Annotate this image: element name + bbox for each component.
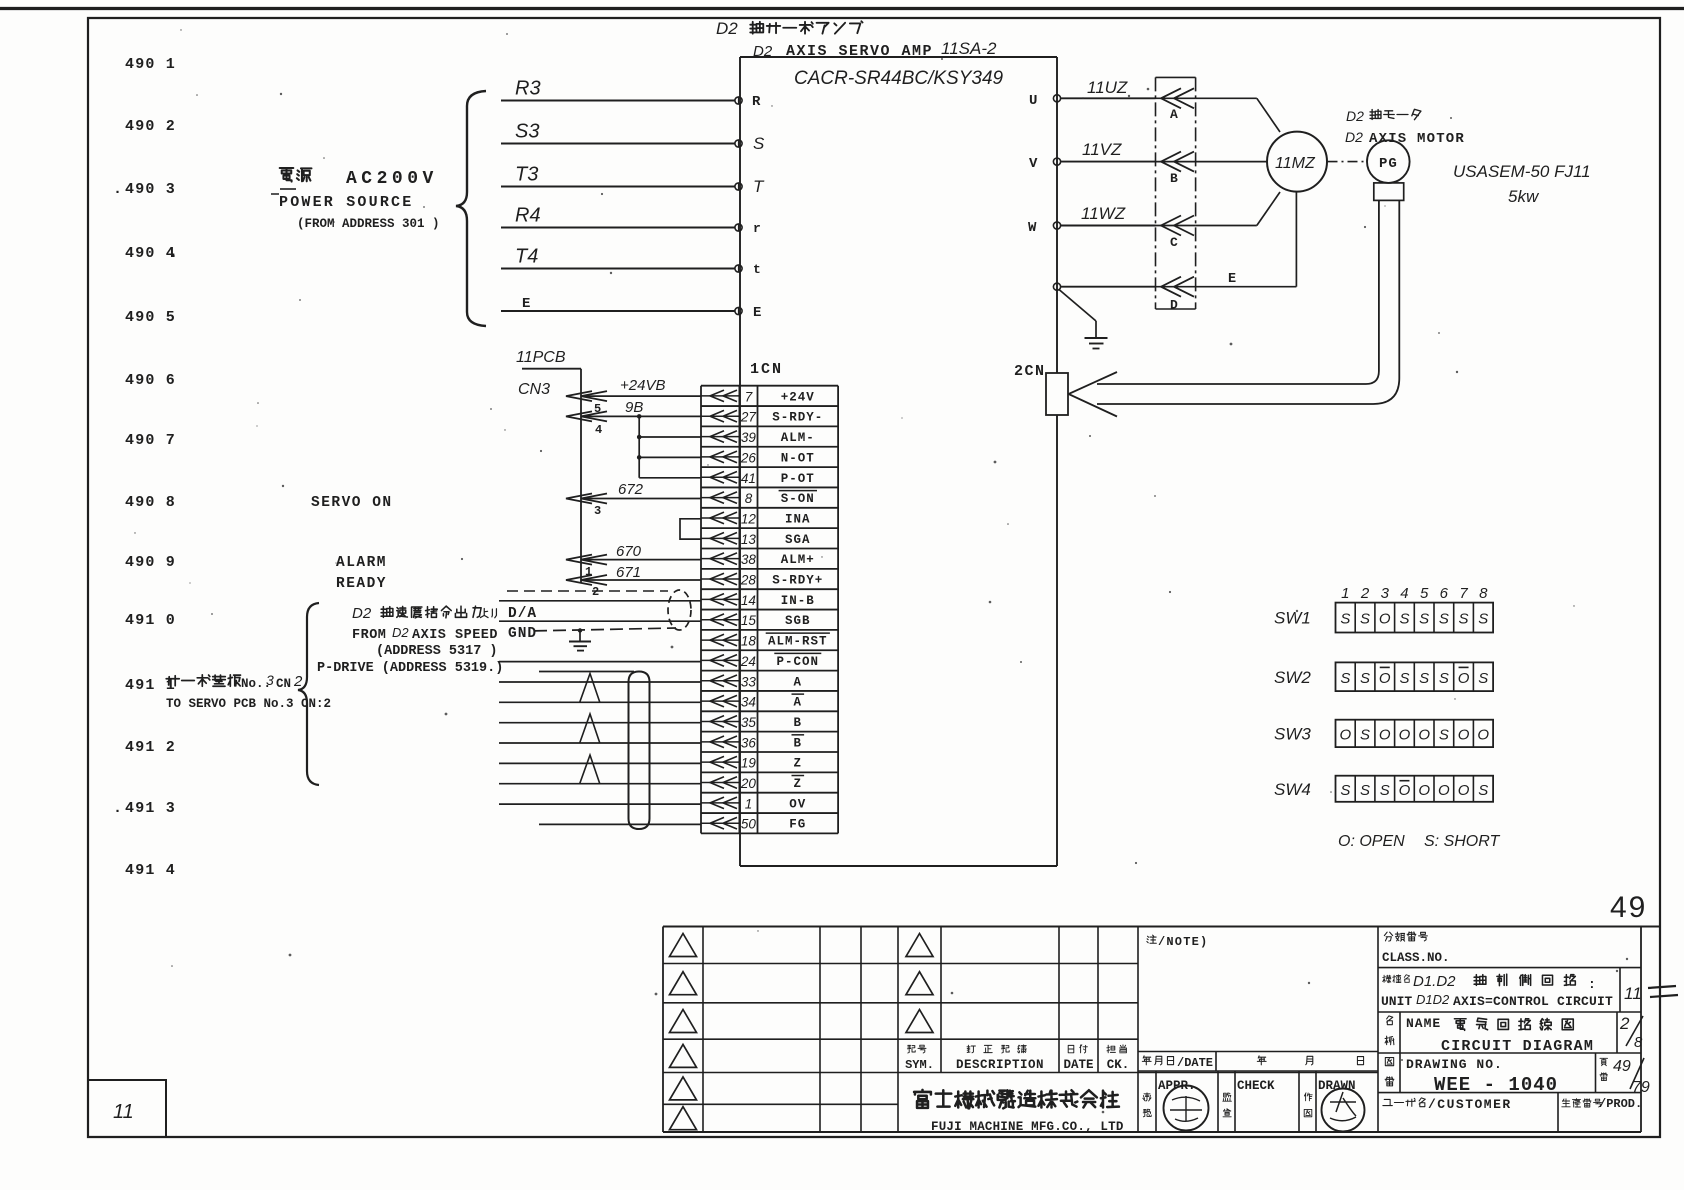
svg-text:/PROD.: /PROD. <box>1599 1097 1642 1111</box>
svg-text:D2: D2 <box>716 19 738 38</box>
wire T4 to servo amp <box>501 268 735 270</box>
svg-text:O: O <box>1438 782 1450 799</box>
1CN pin 7 +24V row <box>701 389 815 404</box>
svg-text:PG: PG <box>1379 156 1398 172</box>
1CN pin 24 P-CON row <box>701 653 821 669</box>
encoder wire y=783.7 <box>499 783 701 785</box>
svg-text:490 5: 490 5 <box>125 309 176 326</box>
motor to PG link <box>1328 161 1367 163</box>
svg-text:11: 11 <box>1624 984 1642 1003</box>
power source label (dengen AC200V) <box>280 168 312 182</box>
brace to servo pcb <box>298 603 319 785</box>
wire block C to motor <box>1196 225 1257 227</box>
wire block D to motor frame E <box>1196 286 1297 288</box>
svg-text:SW1: SW1 <box>1274 609 1311 628</box>
svg-text:11WZ: 11WZ <box>1081 204 1126 223</box>
output terminal W <box>1053 222 1060 229</box>
wire P-CON from P-DRIVE <box>499 661 701 663</box>
svg-text:P-CON: P-CON <box>777 655 820 669</box>
equals marks outside border <box>1648 986 1676 988</box>
page top scan edge line <box>0 7 1684 10</box>
PG cable outer <box>1097 200 1399 404</box>
wire R3 to servo amp <box>501 100 735 102</box>
svg-text:T3: T3 <box>515 164 538 186</box>
svg-text:C: C <box>1170 235 1178 250</box>
svg-text:+24V: +24V <box>781 390 815 404</box>
revision triangle col2 row 1 <box>906 934 933 957</box>
1CN pin 18 ALM-RST row <box>701 633 830 649</box>
encoder wire y=702.3 <box>499 701 701 703</box>
jumper INA-SGA <box>680 519 701 539</box>
svg-text:CK.: CK. <box>1107 1058 1130 1072</box>
title block revision grid <box>663 927 1378 1133</box>
svg-text:T4: T4 <box>515 246 538 268</box>
svg-text:A: A <box>794 696 803 710</box>
svg-text:CACR-SR44BC/KSY349: CACR-SR44BC/KSY349 <box>794 68 1004 89</box>
svg-text:491 2: 491 2 <box>125 739 176 756</box>
svg-text:S: S <box>1380 782 1390 799</box>
wire 670 to 1CN <box>581 559 701 561</box>
svg-text:3: 3 <box>594 504 601 518</box>
svg-text:OV: OV <box>789 797 806 811</box>
revision triangle col2 row 3 <box>906 1010 933 1033</box>
terminal S <box>735 140 742 147</box>
svg-text:11UZ: 11UZ <box>1087 78 1128 97</box>
terminal block row B <box>1156 152 1196 186</box>
SW1 switch table <box>1274 603 1493 633</box>
svg-text:UNIT: UNIT <box>1381 994 1412 1009</box>
wire FG <box>539 823 701 825</box>
svg-text:5: 5 <box>594 402 601 416</box>
svg-text:2: 2 <box>592 585 599 599</box>
svg-text:670: 670 <box>616 543 642 560</box>
1CN pin 14 IN-B row <box>701 593 815 608</box>
drawing no cell WEE-1040 <box>1378 1053 1650 1096</box>
svg-text:D1D2: D1D2 <box>1416 992 1450 1007</box>
svg-text:/DATE: /DATE <box>1177 1056 1213 1070</box>
svg-text:11SA-2: 11SA-2 <box>941 39 997 58</box>
wire S3 to servo amp <box>501 143 735 145</box>
svg-text:490 3: 490 3 <box>125 181 176 198</box>
1CN pin 1 OV row <box>701 796 806 811</box>
terminal E <box>735 307 742 314</box>
svg-text:S3: S3 <box>515 121 539 143</box>
unit name cell <box>1378 968 1642 1012</box>
svg-text:12: 12 <box>741 511 757 526</box>
svg-text:SERVO ON: SERVO ON <box>311 495 393 511</box>
svg-text:R3: R3 <box>515 78 541 100</box>
svg-text:T: T <box>753 177 765 196</box>
svg-text:491 4: 491 4 <box>125 862 176 879</box>
svg-text:B: B <box>1170 171 1178 186</box>
svg-text:24: 24 <box>740 654 756 669</box>
svg-text:AXIS=CONTROL CIRCUIT: AXIS=CONTROL CIRCUIT <box>1453 994 1613 1009</box>
svg-text:E: E <box>753 305 761 321</box>
1CN pin 33 A row <box>701 674 802 689</box>
svg-text:38: 38 <box>741 552 757 567</box>
svg-text:S: S <box>1360 726 1370 743</box>
terminal t <box>735 265 742 272</box>
svg-text:S: S <box>1478 782 1488 799</box>
1CN pin 38 ALM+ row <box>701 552 815 567</box>
svg-text:INA: INA <box>785 512 811 526</box>
signal ground symbol <box>578 628 582 632</box>
svg-text:E: E <box>522 296 530 312</box>
wire 672 to 1CN <box>581 498 701 500</box>
wire T3 to servo amp <box>501 186 735 188</box>
svg-text:35: 35 <box>741 715 757 730</box>
terminal r <box>735 224 742 231</box>
svg-text:SW3: SW3 <box>1274 724 1311 743</box>
output terminal E <box>1053 283 1060 290</box>
revision triangle row 1 <box>670 934 697 957</box>
svg-text:NAME: NAME <box>1406 1016 1441 1031</box>
encoder wire y=743 <box>499 742 701 744</box>
svg-text:E: E <box>1228 272 1236 287</box>
svg-text:S: S <box>1340 670 1350 687</box>
svg-text:491 0: 491 0 <box>125 612 176 629</box>
svg-text:S-RDY-: S-RDY- <box>772 411 823 425</box>
svg-text:2: 2 <box>1360 585 1370 602</box>
1CN pin 34 A row <box>701 694 804 710</box>
svg-text:7: 7 <box>745 389 753 404</box>
svg-text:11MZ: 11MZ <box>1275 155 1316 172</box>
shield oval for D/A pair <box>668 590 691 630</box>
svg-text:7: 7 <box>1459 585 1468 602</box>
svg-text:AXIS SPEED: AXIS SPEED <box>412 628 498 643</box>
revision triangle row 2 <box>670 972 697 995</box>
svg-text:2: 2 <box>1619 1014 1630 1033</box>
svg-text:O: OPEN: O: OPEN <box>1338 833 1405 850</box>
twisted pair symbol A <box>580 674 600 703</box>
1CN pin 19 Z row <box>701 756 802 771</box>
svg-text:5: 5 <box>1420 585 1429 602</box>
1CN pin 27 S-RDY- row <box>701 410 823 425</box>
svg-text:1: 1 <box>1341 585 1349 602</box>
shield drain to encoder shield <box>539 671 634 673</box>
servo pcb text <box>166 675 240 686</box>
terminal block row A <box>1156 88 1196 122</box>
wire +24VB to 1CN <box>581 395 701 397</box>
1CN connector table <box>701 386 838 834</box>
svg-text:DRAWING NO.: DRAWING NO. <box>1406 1057 1503 1072</box>
sheet number box bottom left <box>88 1080 166 1137</box>
svg-text:50: 50 <box>741 817 757 832</box>
terminal T <box>735 183 742 190</box>
cable arrow into 2CN <box>1069 372 1118 417</box>
svg-text:3: 3 <box>266 672 274 688</box>
class no cell <box>1382 932 1450 965</box>
wire R4 to servo amp <box>501 227 735 229</box>
svg-text:S: S <box>1419 611 1429 628</box>
svg-text:DESCRIPTION: DESCRIPTION <box>956 1058 1044 1072</box>
svg-text:FUJI MACHINE MFG.CO., LTD: FUJI MACHINE MFG.CO., LTD <box>931 1120 1124 1134</box>
svg-text:O: O <box>1399 782 1411 799</box>
svg-text:.: . <box>169 245 178 262</box>
svg-text:R4: R4 <box>515 205 541 227</box>
wire E to terminal block <box>1061 286 1156 288</box>
svg-text:15: 15 <box>741 613 757 628</box>
svg-text:O: O <box>1340 726 1352 743</box>
output terminal U <box>1053 95 1060 102</box>
revision triangle col2 row 2 <box>906 972 933 995</box>
svg-text:S-RDY+: S-RDY+ <box>772 574 823 588</box>
svg-text:R: R <box>752 94 761 110</box>
svg-text:O: O <box>1399 726 1411 743</box>
svg-text:/NOTE): /NOTE) <box>1158 935 1208 949</box>
svg-text:S: S <box>1360 670 1370 687</box>
svg-text:A: A <box>1170 107 1178 122</box>
svg-text:3: 3 <box>1381 585 1390 602</box>
svg-text:34: 34 <box>741 695 756 710</box>
svg-text:1: 1 <box>585 565 592 579</box>
PG cable inner <box>1097 200 1379 384</box>
svg-text:READY: READY <box>336 576 387 592</box>
svg-text:U: U <box>1029 93 1037 109</box>
svg-text:CLASS.NO.: CLASS.NO. <box>1382 951 1450 965</box>
svg-text:A: A <box>794 675 803 689</box>
svg-text:D2: D2 <box>753 43 773 60</box>
1CN pin 36 B row <box>701 735 804 751</box>
svg-text:27: 27 <box>740 410 757 425</box>
SW3 switch table <box>1274 720 1493 747</box>
svg-text:B: B <box>794 736 803 750</box>
SW4 switch table <box>1274 776 1493 802</box>
twisted pair symbol Z <box>580 755 600 784</box>
svg-text:ALARM: ALARM <box>336 555 387 571</box>
customer cell <box>1378 1093 1642 1132</box>
svg-text:39: 39 <box>741 430 757 445</box>
svg-text:O: O <box>1418 782 1430 799</box>
GND dashed wire <box>534 628 676 631</box>
wire 11UZ <box>1061 97 1156 99</box>
svg-text:33: 33 <box>741 674 757 689</box>
wire 11WZ <box>1061 225 1156 227</box>
svg-text:SW4: SW4 <box>1274 780 1311 799</box>
svg-text:D: D <box>1170 298 1178 313</box>
svg-text:USASEM-50 FJ11: USASEM-50 FJ11 <box>1453 162 1591 181</box>
svg-text:P-DRIVE (ADDRESS 5319.): P-DRIVE (ADDRESS 5319.) <box>317 661 503 676</box>
1CN pin 26 N-OT row <box>701 450 815 465</box>
svg-text:D/A: D/A <box>508 606 537 622</box>
svg-text:S: S <box>1399 670 1409 687</box>
svg-text:O: O <box>1458 726 1470 743</box>
svg-text:CHECK: CHECK <box>1237 1079 1275 1093</box>
wire IN-B <box>499 600 701 602</box>
svg-text:+24VB: +24VB <box>620 377 665 394</box>
1CN pin 39 ALM- row <box>701 430 815 445</box>
wire from 11PCB CN3 <box>522 368 581 370</box>
shield drain wire dashed to D/A pair <box>507 590 668 592</box>
svg-text:490 9: 490 9 <box>125 554 176 571</box>
1CN pin 50 FG row <box>701 817 806 832</box>
svg-text:S: S <box>1439 670 1449 687</box>
svg-text:AXIS MOTOR: AXIS MOTOR <box>1369 131 1465 147</box>
wire SGB <box>499 620 701 622</box>
wire block B to motor <box>1196 161 1267 163</box>
svg-text:41: 41 <box>741 471 756 486</box>
svg-text:ALM+: ALM+ <box>781 553 815 567</box>
svg-text:.: . <box>113 181 122 198</box>
svg-text:490 6: 490 6 <box>125 372 176 389</box>
brace grouping power wires <box>456 91 486 326</box>
svg-text:20: 20 <box>740 776 757 791</box>
svg-text:S-ON: S-ON <box>781 492 815 506</box>
name cell circuit diagram <box>1378 1012 1643 1055</box>
svg-text:O: O <box>1477 726 1489 743</box>
svg-text:8: 8 <box>1479 585 1488 602</box>
svg-text::: : <box>1588 977 1596 992</box>
svg-text:Z: Z <box>794 777 803 791</box>
1CN pin 41 P-OT row <box>701 471 815 486</box>
approval stamp <box>1164 1086 1209 1131</box>
terminal block row C <box>1156 216 1196 251</box>
svg-text:/CUSTOMER: /CUSTOMER <box>1428 1097 1512 1112</box>
svg-text:(ADDRESS 5317 ): (ADDRESS 5317 ) <box>376 644 498 659</box>
SW header digits 1-8 <box>1341 585 1488 602</box>
svg-text:5kw: 5kw <box>1508 187 1540 206</box>
svg-text:S: S <box>1340 782 1350 799</box>
svg-text:Z: Z <box>794 757 803 771</box>
svg-text:DATE: DATE <box>1063 1058 1093 1072</box>
PG connector box <box>1374 183 1404 201</box>
svg-text:S: S <box>1478 670 1488 687</box>
svg-text:S: SHORT: S: SHORT <box>1424 833 1501 850</box>
svg-text:CN: CN <box>276 677 291 691</box>
svg-text:S: S <box>1399 611 1409 628</box>
svg-text:8: 8 <box>745 491 753 506</box>
1CN pin 12 INA row <box>701 511 811 526</box>
company name Fuji Machine <box>914 1090 1119 1108</box>
revision triangle row 4 <box>670 1044 697 1067</box>
drawn stamp <box>1322 1089 1365 1132</box>
encoder wire y=763.4 <box>499 762 701 764</box>
svg-text:490 8: 490 8 <box>125 494 176 511</box>
svg-text:4: 4 <box>595 423 602 437</box>
svg-text:S: S <box>753 134 765 153</box>
svg-text:AC200V: AC200V <box>346 169 438 189</box>
svg-text:36: 36 <box>741 735 757 750</box>
motor 11MZ circle <box>1267 132 1327 192</box>
encoder cable shield oval <box>629 672 650 830</box>
svg-text:V: V <box>1029 156 1038 172</box>
svg-text:S: S <box>1478 611 1488 628</box>
svg-text:FROM: FROM <box>352 628 386 643</box>
svg-text:9B: 9B <box>625 399 643 416</box>
twisted pair symbol B <box>580 714 600 743</box>
svg-text:D2: D2 <box>1346 108 1364 124</box>
svg-text:S: S <box>1360 782 1370 799</box>
SYM DESCRIPTION DATE CK headers <box>905 1045 1129 1072</box>
svg-text:DRAWN: DRAWN <box>1318 1079 1356 1093</box>
encoder wire y=722.7 <box>499 722 701 724</box>
svg-text:GND: GND <box>508 626 537 642</box>
svg-text:S: S <box>1360 611 1370 628</box>
svg-text:IN-B: IN-B <box>781 594 815 608</box>
svg-text:D2: D2 <box>392 625 409 640</box>
1CN pin 13 SGA row <box>701 532 811 547</box>
1CN pin 35 B row <box>701 715 802 730</box>
svg-text:1CN: 1CN <box>750 361 783 378</box>
svg-text:POWER SOURCE: POWER SOURCE <box>279 194 413 211</box>
PG encoder circle <box>1367 140 1410 183</box>
terminal R <box>735 97 742 104</box>
NOTE box <box>1138 927 1378 1133</box>
svg-text:1: 1 <box>745 796 753 811</box>
svg-text:O: O <box>1379 670 1391 687</box>
svg-text:S: S <box>1459 611 1469 628</box>
svg-text:.: . <box>113 800 122 817</box>
junction bus 9B to ALM- N-OT P-OT <box>638 416 640 477</box>
svg-text:671: 671 <box>616 564 641 581</box>
svg-text:CN3: CN3 <box>518 381 550 398</box>
svg-text:FG: FG <box>789 818 806 832</box>
svg-text:AXIS SERVO AMP: AXIS SERVO AMP <box>786 43 933 60</box>
revision triangle row 6 <box>670 1107 697 1130</box>
svg-text:ALM-RST: ALM-RST <box>768 635 828 649</box>
svg-text:O: O <box>1379 611 1391 628</box>
svg-text:2CN: 2CN <box>1014 363 1046 380</box>
svg-text:4: 4 <box>1400 585 1408 602</box>
svg-text:SYM.: SYM. <box>905 1058 934 1072</box>
svg-text:D2: D2 <box>1345 129 1363 145</box>
title block outline <box>663 927 1660 1133</box>
wire E to servo amp <box>501 310 735 312</box>
svg-text:S: S <box>1419 670 1429 687</box>
svg-text:28: 28 <box>740 573 757 588</box>
wire 9B to 1CN <box>581 415 701 417</box>
svg-text:14: 14 <box>741 593 756 608</box>
svg-text:49: 49 <box>1610 891 1647 924</box>
svg-text:18: 18 <box>741 634 757 649</box>
svg-text:79: 79 <box>1632 1079 1650 1096</box>
svg-text:11VZ: 11VZ <box>1082 140 1122 159</box>
svg-text:S: S <box>1439 726 1449 743</box>
ground at servo amp output <box>1059 290 1096 322</box>
svg-text:19: 19 <box>741 756 757 771</box>
encoder wire y=804.1 <box>499 803 701 805</box>
2CN connector box <box>1046 373 1068 415</box>
svg-text:N-OT: N-OT <box>781 451 815 465</box>
svg-text:(FROM ADDRESS 301 ): (FROM ADDRESS 301 ) <box>297 217 440 231</box>
date header row <box>1142 1052 1363 1072</box>
1CN pin 8 S-ON row <box>701 491 817 507</box>
svg-text:t: t <box>753 262 761 277</box>
svg-text:490 2: 490 2 <box>125 118 176 135</box>
svg-text:SW2: SW2 <box>1274 668 1311 687</box>
1CN pin 28 S-RDY+ row <box>701 573 823 588</box>
svg-text:W: W <box>1028 220 1037 236</box>
svg-text:O: O <box>1458 782 1470 799</box>
svg-text:ALM-: ALM- <box>781 431 815 445</box>
svg-text:r: r <box>753 221 761 236</box>
svg-text:13: 13 <box>741 532 757 547</box>
wire 671 to 1CN <box>581 579 701 581</box>
terminal block row D <box>1156 277 1196 313</box>
svg-text:B: B <box>794 716 803 730</box>
svg-text:O: O <box>1418 726 1430 743</box>
svg-text:D2: D2 <box>352 605 372 622</box>
svg-text:6: 6 <box>1440 585 1449 602</box>
svg-text:2: 2 <box>293 673 303 690</box>
svg-text:SGA: SGA <box>785 533 811 547</box>
approval row <box>1143 1071 1356 1132</box>
revision triangle row 5 <box>670 1077 697 1100</box>
svg-text:D1.D2: D1.D2 <box>1413 973 1456 990</box>
svg-text:11: 11 <box>113 1101 134 1123</box>
encoder wire y=682 <box>499 681 701 683</box>
svg-text:490 7: 490 7 <box>125 432 176 449</box>
